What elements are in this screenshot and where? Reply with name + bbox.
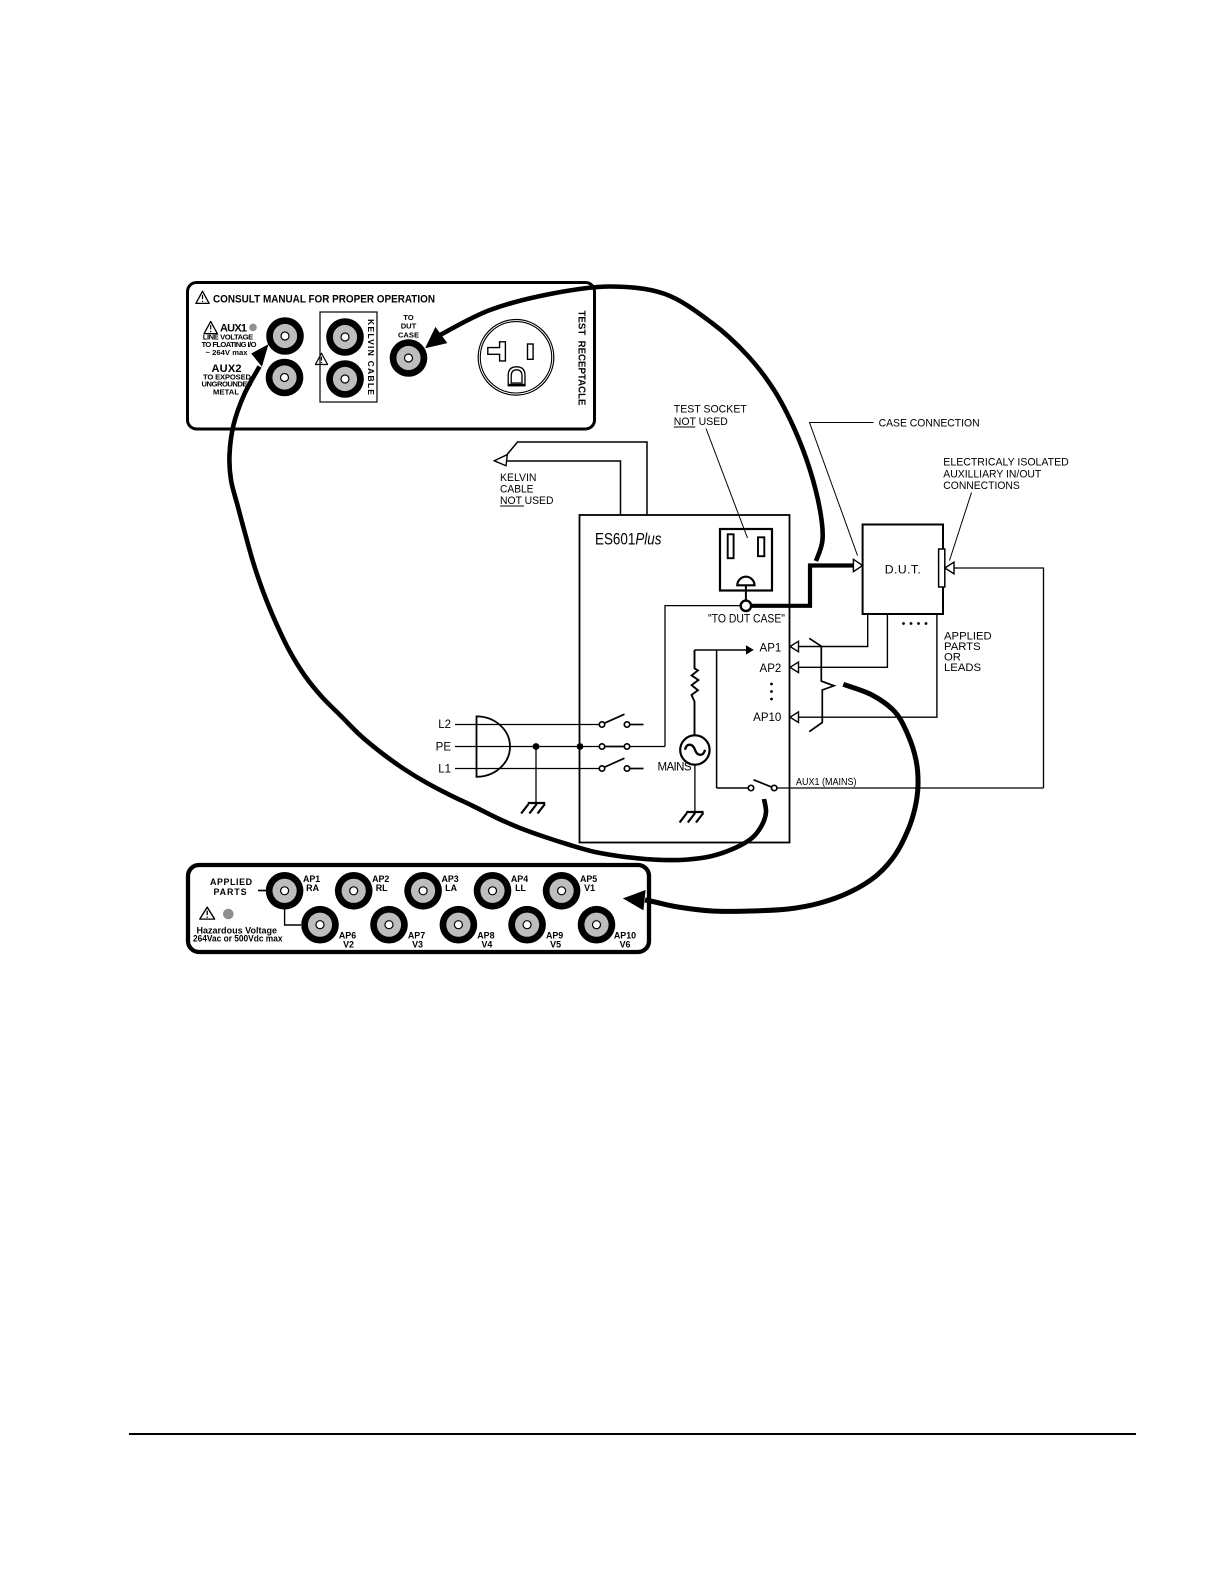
svg-text:AUXILLIARY IN/OUT: AUXILLIARY IN/OUT xyxy=(943,469,1041,481)
indicator dot AUX1 xyxy=(249,324,257,332)
panel enclosure xyxy=(188,865,649,952)
svg-text:~ 264V max: ~ 264V max xyxy=(206,348,249,357)
mains sine symbol xyxy=(685,745,705,755)
svg-text:TO: TO xyxy=(403,313,414,322)
svg-text:"TO DUT CASE": "TO DUT CASE" xyxy=(708,614,785,626)
svg-text:AP10: AP10 xyxy=(753,712,781,724)
svg-text:AP2: AP2 xyxy=(760,663,782,675)
svg-text:264Vac or 500Vdc max: 264Vac or 500Vdc max xyxy=(193,934,283,944)
cable B : AUX1 jack to AUX1 mains switch (big left arc) xyxy=(229,367,766,861)
warning triangle AUX1 xyxy=(204,321,217,333)
svg-text:TEST SOCKET: TEST SOCKET xyxy=(674,404,747,416)
svg-text:LEADS: LEADS xyxy=(944,662,982,674)
warning triangle kelvin xyxy=(315,353,327,364)
kelvin cable box xyxy=(320,312,377,402)
switch L1 xyxy=(599,766,604,771)
svg-text:CASE CONNECTION: CASE CONNECTION xyxy=(879,418,980,430)
svg-text:TEST RECEPTACLE: TEST RECEPTACLE xyxy=(576,311,587,406)
jack AP3 xyxy=(404,872,442,910)
svg-text:DUT: DUT xyxy=(401,322,417,331)
wire resistor top to AP1 arrow xyxy=(695,649,747,651)
svg-text:METAL: METAL xyxy=(213,387,239,396)
wire AP10 to DUT xyxy=(799,614,937,717)
PANEL1 : test receptacle panel xyxy=(188,283,595,430)
mains source circle xyxy=(680,735,709,764)
jack AP10 xyxy=(578,906,616,944)
DUT box xyxy=(863,525,943,615)
jack AP2 xyxy=(335,872,373,910)
DUT right connector rect xyxy=(939,549,945,587)
wire PE xyxy=(455,746,599,748)
wire AP2 to DUT xyxy=(799,614,888,667)
jack AP9 xyxy=(508,906,546,944)
junction dot PE left xyxy=(533,743,540,750)
test socket left slot xyxy=(728,534,734,558)
svg-text:LA: LA xyxy=(445,883,457,893)
svg-text:APPLIED: APPLIED xyxy=(210,877,253,887)
junction dot PE at box edge xyxy=(577,743,584,750)
open arrow into DUT right xyxy=(945,562,954,574)
panel enclosure xyxy=(188,283,595,430)
wire AP1 to DUT xyxy=(799,614,868,647)
svg-text:PE: PE xyxy=(436,742,452,754)
open arrow AP1 at box edge xyxy=(790,641,799,652)
svg-text:V3: V3 xyxy=(412,939,423,949)
svg-text:CABLE: CABLE xyxy=(500,484,534,496)
svg-text:NOT USED: NOT USED xyxy=(674,416,728,428)
wire right loop xyxy=(954,568,1044,788)
CURVES : thick cables xyxy=(229,287,918,912)
receptacle right slot xyxy=(528,344,534,359)
svg-text:V2: V2 xyxy=(343,939,354,949)
warning triangle (title) xyxy=(196,291,209,303)
svg-text:V5: V5 xyxy=(550,939,561,949)
svg-text:L2: L2 xyxy=(438,719,451,731)
svg-text:RA: RA xyxy=(306,883,319,893)
svg-text:LL: LL xyxy=(515,883,526,893)
callout line test socket xyxy=(706,429,748,539)
jack AP1 xyxy=(266,872,304,910)
kelvin-not-used wire upper xyxy=(504,442,648,515)
svg-text:RL: RL xyxy=(376,883,388,893)
svg-text:CONSULT MANUAL FOR PROPER OPER: CONSULT MANUAL FOR PROPER OPERATION xyxy=(213,294,435,306)
kelvin-not-used open arrowhead xyxy=(494,455,507,466)
wire PE to ground xyxy=(535,747,537,804)
test socket right slot xyxy=(758,537,764,556)
switch PE (closed) xyxy=(599,744,604,749)
test socket rect xyxy=(720,529,772,591)
cable C : applied parts bundle to applied parts panel xyxy=(645,684,918,911)
wire L1 xyxy=(455,768,599,770)
switch L2 xyxy=(599,722,604,727)
dots between AP2 and AP10 xyxy=(770,683,773,686)
jack AUX1 xyxy=(266,317,304,355)
open arrow AP2 xyxy=(790,662,799,673)
wire dome to node xyxy=(745,585,747,600)
jack AP5 xyxy=(543,872,581,910)
test socket ground dome xyxy=(737,577,754,586)
callout line case connection xyxy=(810,423,874,556)
svg-text:NOT USED: NOT USED xyxy=(500,495,554,507)
receptacle T slot xyxy=(488,342,506,361)
wire node to PE (thin, left + down) xyxy=(665,606,741,747)
wire AP1 to AP6 xyxy=(285,910,301,926)
svg-text:ES601Plus: ES601Plus xyxy=(595,531,662,549)
cable bundle marker xyxy=(809,638,834,731)
callout line electrically isolated xyxy=(950,493,972,561)
receptacle ground slot xyxy=(508,367,525,386)
svg-text:KELVIN: KELVIN xyxy=(500,472,537,484)
jack KELVIN top xyxy=(326,318,364,356)
receptacle outer circle xyxy=(478,320,554,396)
PANEL3 : applied parts panel xyxy=(188,865,649,952)
resistor R (zigzag) xyxy=(692,650,699,735)
svg-text:V6: V6 xyxy=(620,939,631,949)
jack AP4 xyxy=(474,872,512,910)
AP bus rail xyxy=(716,650,718,788)
jack KELVIN bottom xyxy=(326,360,364,398)
svg-text:CASE: CASE xyxy=(398,330,419,339)
receptacle inner circle xyxy=(480,322,551,393)
wire AUX1 line to right loop xyxy=(777,787,1044,789)
svg-text:ELECTRICALY ISOLATED: ELECTRICALY ISOLATED xyxy=(943,457,1069,469)
jack AP8 xyxy=(440,906,478,944)
dash to AP1 xyxy=(258,890,267,892)
PANEL2 : ES601Plus schematic xyxy=(436,404,1069,843)
svg-text:L1: L1 xyxy=(438,764,451,776)
jack TO DUT CASE xyxy=(390,339,428,377)
mains plug symbol xyxy=(477,716,511,776)
dots below DUT xyxy=(902,622,905,625)
svg-text:PARTS: PARTS xyxy=(214,887,247,897)
svg-text:V1: V1 xyxy=(584,883,595,893)
ground PE xyxy=(521,803,545,814)
thick wire node to DUT elbow xyxy=(751,566,854,606)
svg-text:KELVIN CABLE: KELVIN CABLE xyxy=(366,319,376,395)
ground MAINS xyxy=(680,812,704,823)
jack AP6 xyxy=(301,906,339,944)
cable A : DUT case to panel TO DUT CASE jack xyxy=(440,287,823,562)
svg-text:D.U.T.: D.U.T. xyxy=(885,563,921,577)
arrowhead cable A at TO DUT CASE jack xyxy=(426,328,447,348)
node TO DUT CASE xyxy=(741,601,751,611)
open arrow into DUT left (case) xyxy=(853,559,862,571)
wire mains to ground xyxy=(694,765,696,812)
footer rule xyxy=(129,1433,1136,1435)
svg-text:AP1: AP1 xyxy=(760,643,782,655)
filled arrow AP1 (internal) xyxy=(746,645,754,654)
jack AUX2 xyxy=(266,359,304,397)
arrowhead cable B at AUX1 jack xyxy=(252,345,268,366)
wire L2 xyxy=(455,724,599,726)
kelvin-not-used wire lower xyxy=(504,461,621,515)
arrowhead cable C at applied parts panel xyxy=(624,891,645,910)
svg-text:MAINS: MAINS xyxy=(658,762,692,774)
svg-text:AUX1 (MAINS): AUX1 (MAINS) xyxy=(796,776,857,788)
svg-text:CONNECTIONS: CONNECTIONS xyxy=(943,480,1020,492)
warning triangle xyxy=(200,907,215,919)
switch AUX1 (MAINS) xyxy=(717,787,749,789)
indicator dot xyxy=(223,909,234,920)
open arrow AP10 xyxy=(790,712,799,723)
jack AP7 xyxy=(370,906,408,944)
ES601Plus box xyxy=(580,515,790,843)
svg-text:V4: V4 xyxy=(481,939,492,949)
